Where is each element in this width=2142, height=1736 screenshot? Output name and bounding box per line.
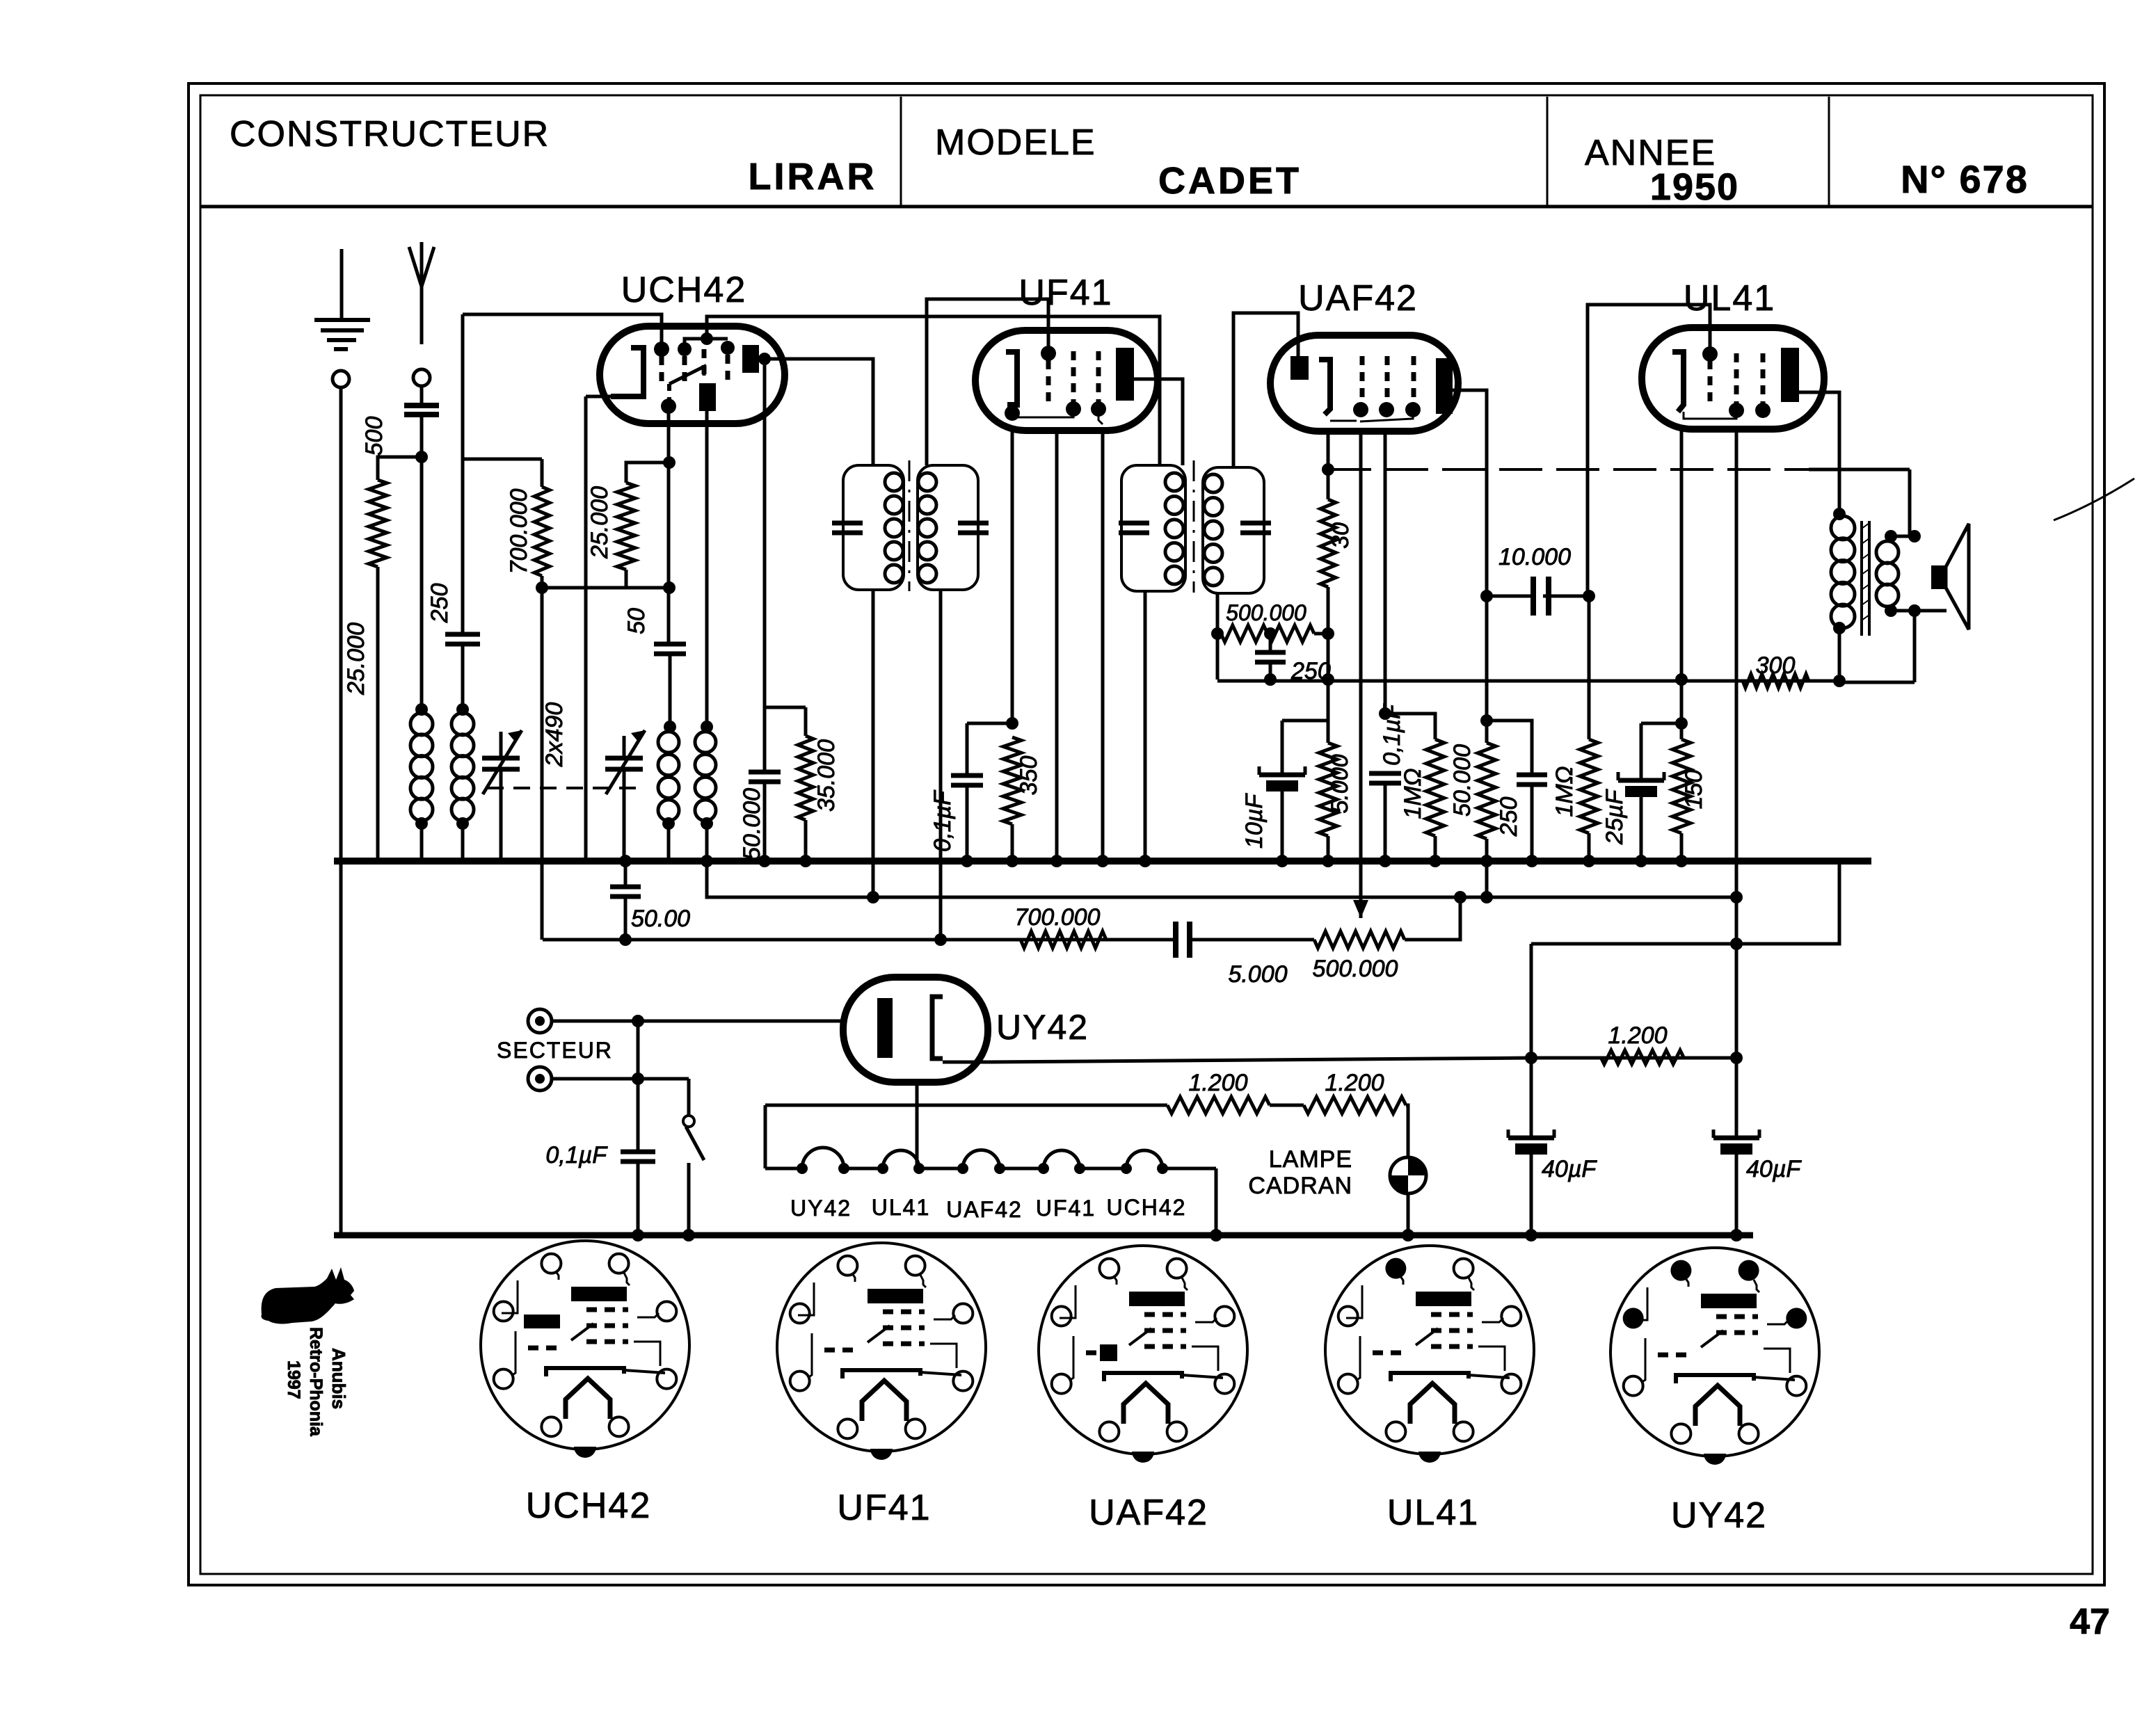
wire UAF42 g drop: [1359, 431, 1363, 918]
label 50.000 v: [1449, 744, 1476, 817]
wire 1200 mid: [1270, 1104, 1304, 1107]
wire L3 bottom: [662, 817, 675, 861]
svg-text:UCH42: UCH42: [526, 1486, 652, 1526]
coil L2 antenna secondary: [451, 713, 474, 821]
terminal antenna: [413, 369, 430, 386]
label 30: [1327, 522, 1354, 549]
svg-text:UY42: UY42: [790, 1196, 852, 1221]
svg-text:Retro-Phonia: Retro-Phonia: [306, 1327, 326, 1437]
wire UY42 cathode out: [943, 1058, 1736, 1062]
label 35.000: [813, 739, 840, 812]
tube UF41 bottom ties: [1017, 410, 1103, 424]
label 300: [1756, 652, 1796, 679]
tube UL41 anode: [1781, 348, 1799, 402]
speaker cone: [1946, 524, 1969, 629]
label 500: [361, 417, 387, 456]
label 25.000 osc: [586, 486, 613, 559]
wire UAF42 diode feed: [1233, 313, 1298, 467]
capacitor 50.000: [749, 772, 781, 782]
svg-text:UCH42: UCH42: [621, 270, 747, 310]
wire L1 bottom: [415, 817, 428, 861]
wire 25000osc bottom: [625, 570, 628, 588]
label UAF42 top: [1298, 278, 1418, 319]
wire UCH42 triode grid drop: [667, 411, 671, 644]
IF2 right frame: [1203, 467, 1264, 593]
svg-text:5.000: 5.000: [1228, 961, 1287, 988]
label 5.000 series: [1228, 961, 1287, 988]
svg-text:500.000: 500.000: [1226, 600, 1306, 625]
svg-text:1.200: 1.200: [1325, 1070, 1384, 1096]
label socket UAF42: [1089, 1493, 1208, 1533]
coil L1 antenna primary: [410, 713, 433, 821]
capacitor 500 antenna: [404, 405, 439, 415]
wire 700000 top: [463, 459, 542, 487]
tube UF41 grid2: [1066, 351, 1081, 417]
IF1 core: [909, 460, 911, 591]
wire UAF42 plate out: [1453, 390, 1493, 602]
wire IF1 right bottom drop: [934, 590, 947, 946]
wire IF1 left bottom drop: [867, 590, 879, 903]
gang dashed link: [487, 787, 637, 789]
wire 1200 line left: [765, 1104, 1167, 1107]
tube UAF42 cathode: [1319, 360, 1330, 415]
page inner border frame: [200, 95, 2093, 1574]
heater chain line: [765, 1168, 1222, 1241]
wire 700000 bottom: [541, 576, 544, 588]
coil L3 osc grid: [658, 732, 679, 821]
svg-text:UCH42: UCH42: [1107, 1195, 1187, 1220]
wire secondary top riser: [1908, 469, 1912, 536]
wire tie 250cap: [1480, 714, 1532, 775]
svg-text:50: 50: [623, 608, 650, 634]
wire UF41 cathode drop: [1006, 431, 1018, 730]
label UCH42 top: [621, 270, 747, 310]
wire antenna terminal to cap: [420, 386, 424, 405]
label 1.200 a: [1188, 1070, 1247, 1096]
terminal ground: [333, 371, 349, 387]
resistor 1M first: [1426, 739, 1444, 836]
resistor 25.000 left: [369, 480, 387, 567]
wire grid line left corner: [461, 314, 465, 634]
IF1 right capacitor: [958, 523, 989, 533]
wire 25000osc top: [626, 456, 676, 483]
label UF41 top: [1018, 273, 1112, 313]
wire 25000 to bus: [376, 567, 380, 861]
svg-text:N° 678: N° 678: [1901, 157, 2029, 201]
capacitor 0,1uF mains: [621, 1079, 655, 1241]
wire UF41 plate out: [1134, 379, 1183, 465]
wire 250af to bus: [1526, 786, 1538, 867]
wire plate tee drop: [758, 353, 771, 772]
label socket UF41: [837, 1488, 931, 1528]
wire 5000 to bus: [1322, 836, 1334, 867]
svg-text:MODELE: MODELE: [935, 122, 1096, 163]
wire 35000 to bus: [799, 820, 812, 867]
anubis logo: [261, 1267, 354, 1324]
resistor 700.000 screen: [534, 487, 550, 576]
svg-text:10µF: 10µF: [1241, 793, 1268, 849]
wire link terminals: [632, 1021, 644, 1085]
wire 25000 top link: [378, 457, 419, 480]
svg-text:30: 30: [1327, 522, 1354, 549]
socket UCH42: [481, 1241, 689, 1458]
tube UAF42 grid1: [1353, 356, 1368, 417]
tube UL41 envelope: [1642, 328, 1824, 429]
socket UAF42: [1039, 1246, 1247, 1463]
resistor 1M second: [1580, 596, 1598, 833]
node OT primary bottom: [1833, 622, 1846, 634]
wire h1357: [1531, 864, 1839, 944]
electrolytic 40uF a: [1508, 944, 1554, 1241]
header divider line: [200, 205, 2093, 209]
wire tie 350 01uF: [967, 722, 1012, 725]
scan artifact curve: [2054, 479, 2134, 520]
wire UCH42 plate out: [759, 359, 873, 465]
page number 47: [2070, 1602, 2110, 1642]
wire antenna to terminal: [420, 287, 424, 344]
resistor 700.000 h: [1021, 931, 1106, 948]
line D 300: [1217, 680, 1839, 683]
wire 250cap to coil2: [456, 645, 469, 716]
tube UF41 grid3: [1091, 351, 1106, 417]
svg-text:50.00: 50.00: [631, 906, 690, 932]
tube UAF42 cathode tie: [1330, 420, 1357, 422]
label CADRAN: [1248, 1173, 1352, 1199]
tube UF41 envelope: [975, 330, 1158, 431]
wire 350 to bus: [1006, 824, 1018, 867]
svg-text:350: 350: [1016, 756, 1042, 796]
IF2 left coil: [1165, 473, 1183, 584]
electrolytic 40uF b: [1713, 897, 1759, 1241]
tube UAF42 envelope: [1270, 335, 1458, 431]
wire heater to 1200: [764, 1105, 767, 1168]
svg-text:25.000: 25.000: [586, 486, 613, 559]
wire UF41 g drop: [1050, 431, 1063, 867]
capacitor 5.000 series: [1176, 922, 1190, 958]
svg-text:1.200: 1.200: [1608, 1022, 1667, 1049]
wire 01uF1 to bus: [961, 787, 973, 867]
tube UAF42 anode: [1436, 358, 1453, 414]
resistor 500.000 avc: [1211, 625, 1328, 642]
label 50.00: [631, 906, 690, 932]
tube UL41 cathode: [1672, 352, 1684, 412]
wire UL41 grid feed: [1588, 305, 1710, 596]
wire top line A1: [463, 314, 662, 349]
svg-text:35.000: 35.000: [813, 739, 840, 812]
IF1 left frame: [843, 465, 904, 590]
header column divider 3: [1828, 97, 1830, 207]
label 250 af: [1496, 797, 1522, 837]
label socket UL41: [1387, 1493, 1479, 1533]
label heater UY42: [790, 1196, 852, 1221]
wire h845: [536, 581, 676, 594]
svg-text:UL41: UL41: [1387, 1493, 1479, 1533]
tube UCH42 envelope: [600, 326, 785, 424]
tube UL41 grid3: [1755, 353, 1771, 418]
header label MODELE: [935, 122, 1096, 163]
wire UF41 grid feed: [927, 299, 1048, 465]
capacitor 50.00: [610, 855, 641, 940]
svg-text:40µF: 40µF: [1746, 1156, 1802, 1182]
dashed AVC line: [1328, 468, 1816, 471]
label 5.000 v: [1327, 754, 1353, 813]
svg-text:1MΩ: 1MΩ: [1551, 766, 1578, 817]
wire tie 25uF: [1641, 722, 1681, 725]
OT core: [1862, 521, 1869, 636]
svg-text:50.000: 50.000: [739, 788, 765, 860]
label 40uF b: [1746, 1156, 1802, 1182]
capacitor 250 af: [1517, 775, 1547, 785]
svg-text:UF41: UF41: [1018, 273, 1112, 313]
label 0,1uF mains: [545, 1142, 608, 1168]
label heater UF41: [1036, 1196, 1096, 1221]
IF2 right capacitor: [1240, 523, 1271, 533]
IF1 left capacitor: [832, 523, 863, 533]
label 0,1uF UF41: [929, 789, 956, 852]
header column divider 1: [900, 97, 902, 207]
svg-text:700.000: 700.000: [506, 488, 532, 574]
wire secondary bottom: [1885, 604, 1947, 617]
resistor 30: [1320, 499, 1336, 587]
svg-text:UAF42: UAF42: [946, 1197, 1023, 1222]
wire UCH42 triode anode drop: [701, 411, 713, 733]
wire UCH42 cathode drop: [584, 396, 588, 861]
resistor 1.200 b: [1304, 1097, 1406, 1114]
capacitor 250 left: [445, 634, 480, 644]
label 50: [623, 608, 650, 634]
label 1M second: [1551, 766, 1578, 817]
label 1M first: [1400, 768, 1426, 819]
wire secondary top: [1885, 530, 1921, 542]
wire UAF42 cathode drop: [1322, 431, 1334, 499]
wire 50000 to bus: [1480, 839, 1493, 903]
node OT primary top: [1833, 508, 1846, 520]
wire 1200 to lamp: [1402, 1105, 1414, 1241]
svg-text:1997: 1997: [284, 1360, 303, 1399]
resistor 150: [1672, 739, 1691, 833]
header column divider 2: [1546, 97, 1549, 207]
IF2 right coil: [1204, 474, 1222, 586]
label 1.200 top: [1608, 1022, 1667, 1049]
svg-text:500: 500: [361, 417, 387, 456]
tube UAF42 grid3: [1360, 356, 1421, 421]
IF2 left capacitor: [1119, 523, 1149, 533]
socket UF41: [777, 1243, 986, 1460]
svg-text:SECTEUR: SECTEUR: [497, 1038, 613, 1063]
tube UF41 anode: [1116, 348, 1134, 401]
header value CADET: [1158, 160, 1302, 202]
svg-text:UL41: UL41: [872, 1195, 931, 1220]
label UY42: [996, 1008, 1089, 1047]
wire L2 bottom: [456, 817, 469, 861]
svg-text:UAF42: UAF42: [1298, 278, 1418, 319]
svg-text:UL41: UL41: [1684, 278, 1775, 319]
label LAMPE: [1269, 1146, 1352, 1173]
wire 30 down: [1322, 587, 1334, 743]
svg-text:CADET: CADET: [1158, 160, 1302, 202]
tube UY42 envelope: [843, 977, 988, 1082]
terminal secteur 2: [528, 1067, 552, 1091]
svg-text:LAMPE: LAMPE: [1269, 1146, 1352, 1173]
wire 01uF2 to bus: [1379, 785, 1391, 867]
wire pot to lineA: [1405, 891, 1466, 940]
tube UCH42 cathode: [586, 348, 644, 396]
wire ground terminal down: [339, 387, 343, 1235]
antenna symbol: [409, 242, 434, 287]
IF2 core: [1193, 460, 1195, 593]
coil L4 osc anode: [695, 732, 716, 821]
tube UAF42 grid2: [1379, 356, 1394, 417]
label UL41 top: [1684, 278, 1775, 319]
coil OT secondary: [1876, 541, 1899, 606]
wire IF2 right bottom drop: [1216, 593, 1220, 680]
wire secteur2 line: [552, 1077, 689, 1081]
capacitor 10.000: [1487, 577, 1595, 616]
svg-text:UF41: UF41: [837, 1488, 931, 1528]
svg-text:1950: 1950: [1650, 166, 1739, 208]
label 0,1uF UAF42: [1379, 703, 1405, 766]
svg-text:25.000: 25.000: [343, 622, 369, 696]
label heater UL41: [872, 1195, 931, 1220]
svg-text:1MΩ: 1MΩ: [1400, 768, 1426, 819]
potentiometer arrow: [1353, 900, 1368, 918]
tube UL41 grid2: [1729, 353, 1744, 418]
svg-text:CONSTRUCTEUR: CONSTRUCTEUR: [230, 114, 550, 154]
tube UCH42 heptode anode: [742, 345, 759, 373]
capacitor 0,1uF UF41: [951, 775, 983, 785]
header label ANNEE: [1585, 133, 1716, 173]
svg-text:40µF: 40µF: [1542, 1156, 1597, 1182]
wire B after cap: [1190, 938, 1314, 942]
wire v780 down: [541, 588, 544, 940]
label 10.000: [1498, 544, 1571, 570]
label 250 left: [426, 584, 453, 624]
IF1 right coil: [918, 473, 936, 583]
wire 1M2 to bus: [1583, 833, 1595, 867]
label socket UY42: [1671, 1495, 1767, 1536]
wire h1017: [765, 706, 806, 709]
resistor 50.000: [1478, 743, 1496, 839]
tube UCH42 grid4 dashes: [726, 355, 730, 381]
label 500.000 pot: [1313, 956, 1398, 982]
bus chassis main: [334, 858, 1871, 865]
variable capacitor CV1: [482, 730, 522, 861]
resistor 25.000 osc: [617, 483, 635, 570]
label SECTEUR: [497, 1038, 613, 1063]
speaker magnet: [1931, 565, 1946, 589]
line B: [543, 933, 1178, 946]
wire UL41 g2 drop: [1735, 429, 1739, 1138]
label 25.000 left: [343, 622, 369, 696]
svg-text:UY42: UY42: [1671, 1495, 1767, 1536]
anubis text: [284, 1327, 349, 1437]
label 40uF a: [1542, 1156, 1597, 1182]
svg-text:250: 250: [426, 584, 453, 624]
svg-text:LIRAR: LIRAR: [749, 156, 877, 198]
wire secteur1 line: [552, 1015, 843, 1027]
svg-text:47: 47: [2070, 1602, 2110, 1642]
ground symbol: [314, 249, 370, 349]
switch mains: [682, 1079, 704, 1241]
wire avc riser: [1216, 634, 1220, 680]
wire 50000 upper: [1485, 596, 1489, 743]
svg-text:250: 250: [1496, 797, 1522, 837]
IF2 left frame: [1121, 465, 1185, 591]
capacitor 50: [654, 644, 686, 654]
coil OT primary: [1831, 516, 1855, 628]
tube UCH42 grid2 dashes: [682, 356, 687, 381]
svg-text:300: 300: [1756, 652, 1796, 679]
label 50.000 cap: [739, 788, 765, 860]
resistor 1.200 top: [1601, 1050, 1684, 1064]
resistor 350: [1003, 737, 1021, 824]
tube UF41 grid1: [1041, 346, 1056, 407]
node 2201: [1525, 1052, 1537, 1064]
resistor 300: [1743, 674, 1809, 688]
tube UL41 bottom ties: [1684, 412, 1736, 419]
svg-text:UY42: UY42: [996, 1008, 1089, 1047]
bus bottom main: [334, 1232, 1753, 1239]
label 700.000 screen: [506, 488, 532, 574]
wire IF2 left bottom drop: [1139, 591, 1151, 867]
wire 01uF1 stub: [966, 723, 969, 775]
tube UCH42 triode anode: [699, 383, 716, 411]
svg-text:0,1µF: 0,1µF: [929, 789, 956, 852]
wire UAF42 g3 drop: [1379, 431, 1391, 720]
label 250 avc: [1290, 658, 1331, 684]
svg-text:UF41: UF41: [1036, 1196, 1096, 1221]
capacitor 0,1uF UAF42: [1369, 773, 1401, 783]
resistor 1.200 a: [1167, 1097, 1270, 1114]
capacitor 250 avc: [1255, 627, 1286, 686]
label 150: [1681, 770, 1707, 810]
wire UL41 plate out: [1799, 392, 1839, 514]
resistor 5.000: [1319, 743, 1337, 836]
tube UCH42 grid1 dashes: [654, 341, 669, 381]
node antenna top coil: [415, 703, 428, 716]
header label CONSTRUCTEUR: [230, 114, 550, 154]
tube UCH42 grid2 tie: [678, 332, 735, 356]
tube UY42 anode: [877, 998, 893, 1058]
wire L4 bottom: [701, 817, 713, 861]
wire tie 01uF 1M: [1385, 714, 1435, 739]
variable capacitor CV2: [605, 730, 645, 861]
tube UL41 grid1: [1702, 346, 1718, 407]
label 1.200 b: [1325, 1070, 1384, 1096]
socket UY42: [1611, 1248, 1819, 1465]
wire OT primary bottom: [1833, 628, 1846, 687]
svg-text:0,1µF: 0,1µF: [545, 1142, 608, 1168]
wire AVC solid segment: [1809, 468, 1910, 472]
tube UY42 cathode: [932, 997, 943, 1059]
wire secondary drop: [1839, 611, 1915, 682]
svg-text:UAF42: UAF42: [1089, 1493, 1208, 1533]
page outer border frame: [189, 83, 2104, 1585]
label 500.000 avc: [1226, 600, 1306, 625]
svg-text:0,1µF: 0,1µF: [1379, 703, 1405, 766]
svg-text:50.000: 50.000: [1449, 744, 1476, 817]
label 2x490: [541, 702, 568, 768]
label heater UCH42: [1107, 1195, 1187, 1220]
svg-text:1.200: 1.200: [1188, 1070, 1247, 1096]
label 10uF: [1241, 793, 1268, 849]
svg-text:700.000: 700.000: [1015, 904, 1101, 931]
svg-text:150: 150: [1681, 770, 1707, 810]
svg-text:2x490: 2x490: [541, 702, 568, 768]
heater chain humps: [797, 1148, 1168, 1174]
wire UL41 cathode drop: [1675, 429, 1688, 739]
label socket UCH42: [526, 1486, 652, 1526]
